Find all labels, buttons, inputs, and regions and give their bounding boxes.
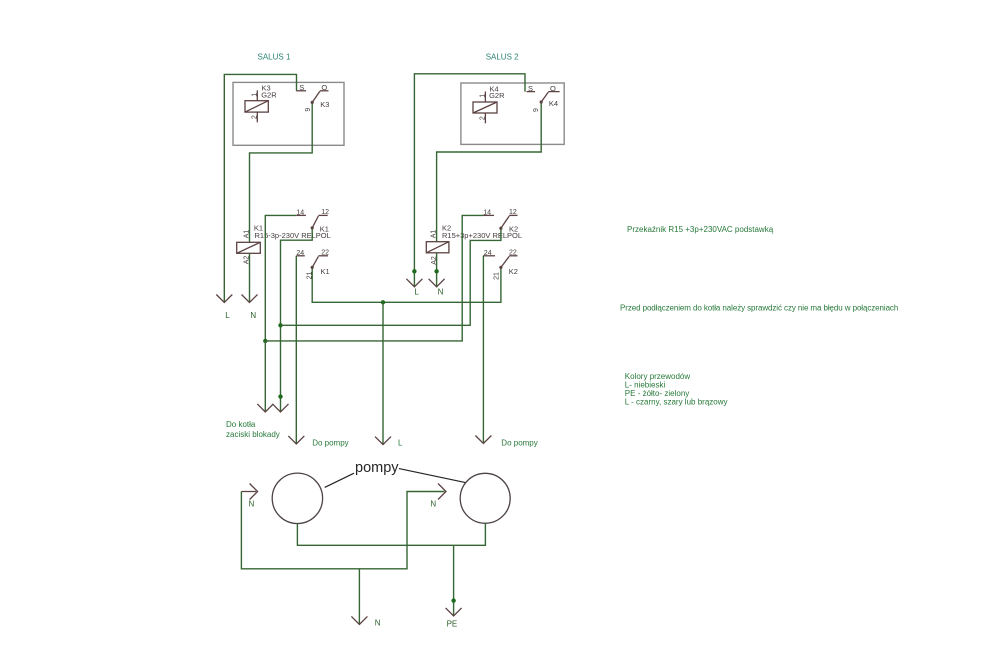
wire 11-bus to K2 pin11 [281,229,501,325]
arrow N bottom [351,616,367,624]
svg-text:22: 22 [509,250,517,257]
arrow L (SALUS1 supply) [216,295,232,303]
svg-text:G2R: G2R [261,90,277,99]
svg-text:N: N [250,311,256,320]
svg-text:zaciski blokady: zaciski blokady [226,430,280,439]
contact K2-2 (24/22/21) [483,256,517,268]
relay coil K1 [237,242,261,253]
svg-text:K4: K4 [549,99,558,108]
svg-text:SALUS 1: SALUS 1 [258,53,291,62]
svg-text:2: 2 [251,115,258,119]
svg-text:A1: A1 [244,230,251,239]
svg-text:9: 9 [305,108,312,112]
junction dot PE [451,598,455,602]
wire K1 pin11 down-left [281,229,313,412]
pivot dot K4 switch [540,100,543,103]
svg-text:14: 14 [296,209,304,216]
svg-text:Do pompy: Do pompy [501,439,537,448]
svg-text:O: O [321,83,327,92]
pivot dot K2-1 [499,227,502,230]
switch contact K3 (S / O) [296,91,328,103]
pump 2 circle [460,473,510,523]
wire N bottom tap [358,569,360,624]
svg-text:21: 21 [493,272,500,280]
wire N feed pumps [241,492,444,569]
svg-text:K2: K2 [509,267,518,276]
contact K1-2 (24/22/21) [296,256,328,268]
frame box SALUS 1 [233,82,344,145]
junction dot node 11-bus [278,323,282,327]
relay coil K2 [426,242,449,253]
arrow L (SALUS2 supply) [406,279,422,287]
pivot dot K2-2 [499,266,502,269]
svg-text:L: L [414,288,419,297]
svg-text:Przekaźnik R15 +3p+230VAC pod: Przekaźnik R15 +3p+230VAC podstawką [627,225,774,234]
pointer line to pump2 [399,469,466,483]
relay coil K4 [473,92,497,124]
wire 14-bus to K2 pin14 [265,215,483,341]
svg-text:K1: K1 [321,267,330,276]
svg-text:9: 9 [533,108,540,112]
wire K4 common to K2 coil A1 [437,104,542,242]
svg-text:24: 24 [296,250,304,257]
svg-text:O: O [550,84,556,93]
arrow N pump1 [241,484,257,500]
pointer line to pump1 [325,473,354,487]
svg-text:N: N [438,288,444,297]
wire L feed SALUS2 [414,74,525,287]
svg-text:S: S [528,84,533,93]
arrow N (SALUS2 supply) [429,279,445,287]
contact K2-1 (14/12/11) [483,215,518,228]
arrow Do kotla 2 [273,404,289,412]
wire K2 coil A2 to N arrow [436,253,438,287]
svg-text:N: N [249,500,255,509]
svg-text:24: 24 [484,250,492,257]
svg-text:12: 12 [509,209,517,216]
relay coil K3 [245,90,268,122]
pivot dot K3 switch [311,101,314,104]
svg-text:K1: K1 [320,225,329,234]
svg-text:PE: PE [447,620,458,629]
arrow N pump2 [438,484,446,500]
wire K3 common to K1 coil A1 [250,104,313,243]
svg-text:Do kotła: Do kotła [226,420,256,429]
wire 21-bus (K1 pin21 to K2 pin21) [312,269,501,303]
arrow PE [446,608,462,616]
svg-text:S: S [299,83,304,92]
pump 1 circle [272,473,322,523]
wire K1 pin24 to pump1 [295,256,297,444]
arrow L output [375,437,391,445]
svg-text:SALUS 2: SALUS 2 [486,53,519,62]
junction dot on boiler wire 2 [278,394,282,398]
pivot dot K1-1 [311,226,314,229]
junction dot node L-out [381,300,385,304]
svg-text:N: N [375,619,381,628]
frame box SALUS 2 [461,83,564,144]
svg-text:K2: K2 [509,225,518,234]
wire K2 pin24 to pump2 [482,256,484,443]
wire K1 coil A2 to N arrow [249,253,251,302]
svg-text:K3: K3 [320,100,329,109]
svg-text:N: N [430,500,436,509]
wire pump bottoms (PE) [297,523,485,545]
wire L-out tap [382,302,384,444]
arrow N (SALUS1 supply) [242,295,258,303]
contact K1-1 (14/12/11) [296,215,328,228]
svg-text:1: 1 [480,94,487,98]
svg-text:Przed podłączeniem do kotła na: Przed podłączeniem do kotła należy spraw… [620,304,898,313]
junction dot node 14-bus [263,339,267,343]
switch contact K4 (S / O) [527,92,560,102]
svg-text:A1: A1 [431,230,438,239]
svg-text:L - czarny, szary lub brązowy: L - czarny, szary lub brązowy [625,397,728,406]
pivot dot K1-2 [311,266,314,269]
svg-text:2: 2 [480,116,487,120]
svg-text:1: 1 [251,93,258,97]
junction dot on N SALUS2 [434,269,438,273]
arrow Do kotla 1 [257,404,273,412]
junction dot on L SALUS2 [412,269,416,273]
svg-text:Do pompy: Do pompy [312,439,348,448]
svg-text:L: L [398,439,403,448]
wire PE tap [453,545,455,615]
svg-text:L: L [225,311,230,320]
svg-text:14: 14 [483,209,491,216]
wire L feed SALUS1 (top-left vertical + horizontal to S) [224,74,296,302]
wire K1 pin14 to bus [265,215,296,341]
svg-text:12: 12 [321,209,329,216]
svg-text:pompy: pompy [355,460,399,476]
svg-text:22: 22 [321,250,329,257]
svg-text:G2R: G2R [489,91,505,100]
arrow Do pompy 2 [475,436,491,444]
wire 14-bus to boiler arrow 1 [264,341,266,412]
arrow Do pompy 1 [288,436,304,444]
